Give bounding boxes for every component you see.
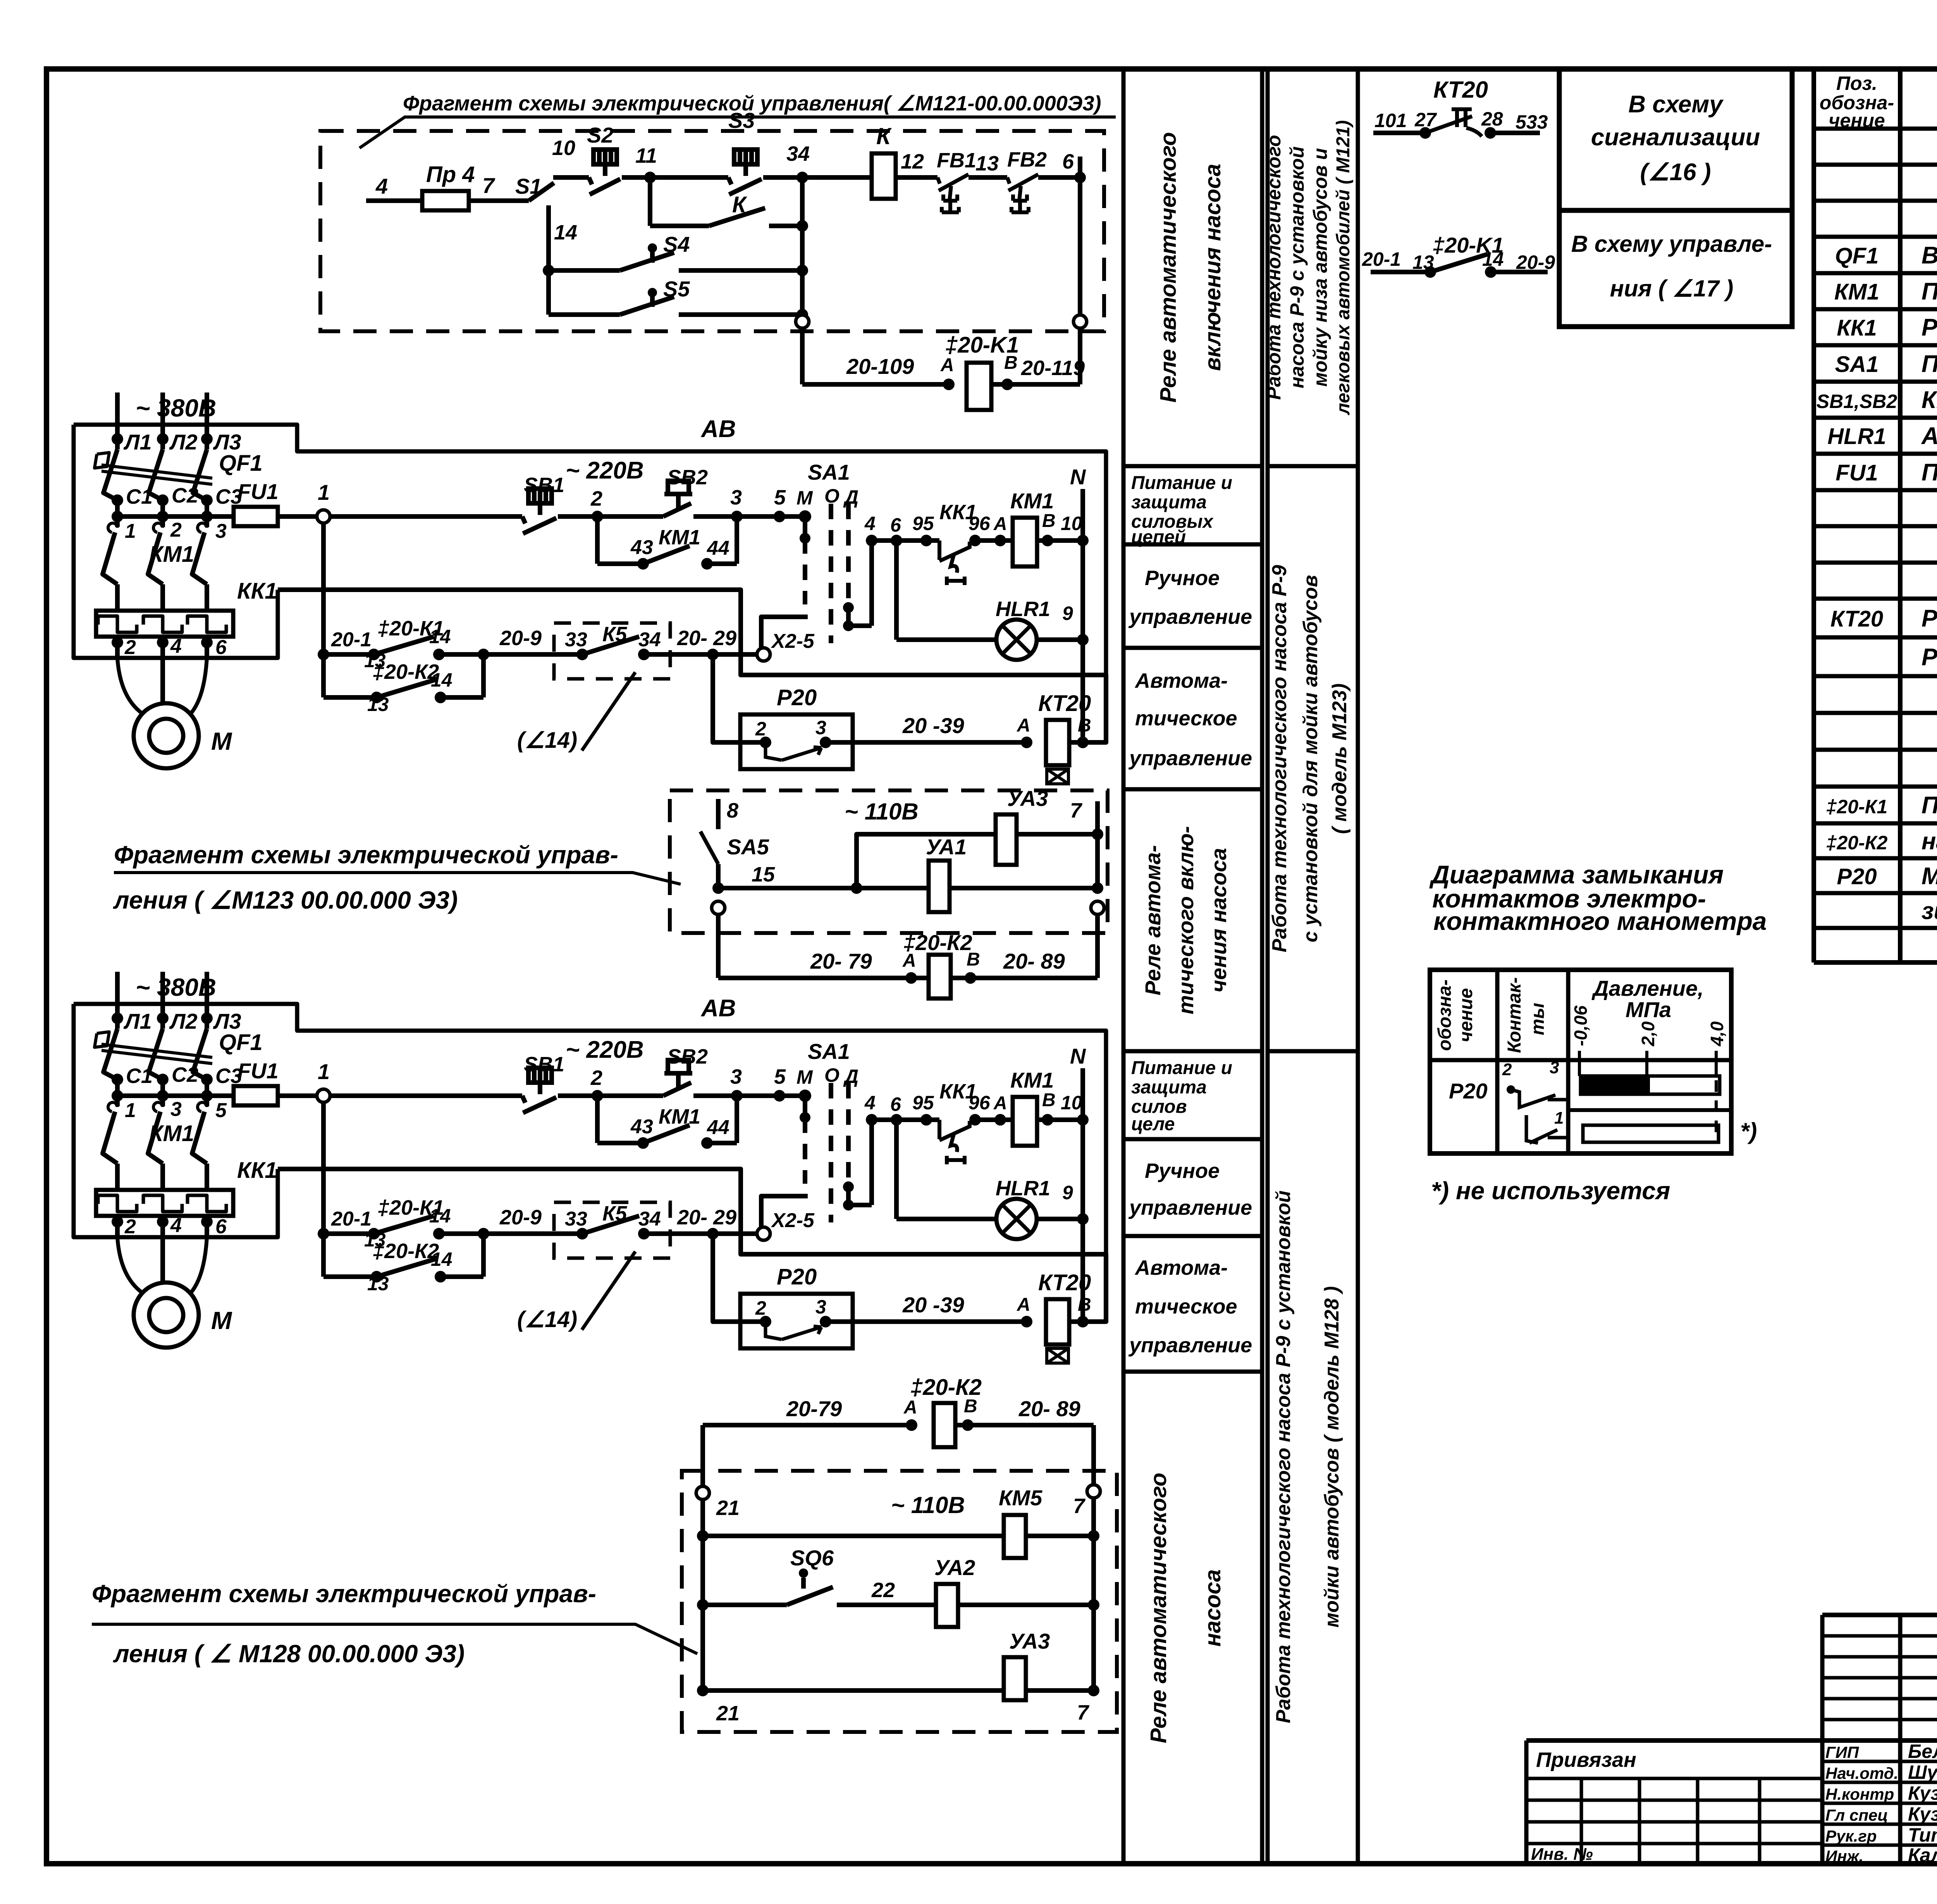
svg-text:1: 1 bbox=[318, 480, 330, 504]
branch contact 20-K2 bbox=[323, 695, 377, 700]
wire node 10 bbox=[553, 175, 589, 180]
S5 head bbox=[648, 288, 657, 297]
svg-text:Предохранитель: Предохранитель bbox=[1922, 459, 1937, 486]
wire 7 bbox=[469, 198, 529, 203]
motor terminals 2 4 6 bbox=[115, 637, 120, 658]
rail down to 20-119 corner bbox=[1078, 327, 1082, 384]
svg-text:14: 14 bbox=[431, 669, 452, 691]
svg-text:КК1: КК1 bbox=[237, 578, 277, 604]
svg-text:ления ( ∠М123 00.00.000 Э3): ления ( ∠М123 00.00.000 Э3) bbox=[113, 886, 458, 914]
svg-text:3: 3 bbox=[815, 717, 826, 739]
svg-text:96: 96 bbox=[968, 513, 991, 534]
KM1 self-hold contact 43-44 bbox=[595, 516, 600, 564]
svg-text:Питание и: Питание и bbox=[1131, 473, 1232, 493]
rail 20-79 / 20-K2 / 20-89 bbox=[716, 914, 721, 978]
svg-text:Гл спец: Гл спец bbox=[1825, 1806, 1888, 1824]
svg-text:Титов: Титов bbox=[1908, 1824, 1937, 1846]
svg-text:5: 5 bbox=[215, 1099, 227, 1122]
contact K auxiliary bbox=[648, 177, 652, 226]
diagram table bbox=[1430, 970, 1731, 1153]
svg-text:SB1: SB1 bbox=[524, 473, 564, 497]
svg-text:управление: управление bbox=[1128, 1196, 1252, 1219]
svg-text:( модель М123): ( модель М123) bbox=[1328, 683, 1351, 834]
svg-text:К: К bbox=[732, 192, 747, 217]
svg-text:УА1: УА1 bbox=[926, 835, 967, 859]
svg-text:~ 110В: ~ 110В bbox=[891, 1492, 965, 1518]
terminal circle left bbox=[796, 315, 809, 328]
left rail 21 bbox=[700, 1425, 705, 1487]
column divider bbox=[1123, 646, 1262, 650]
right rail of LM121 bbox=[1078, 157, 1082, 316]
svg-text:Автома-: Автома- bbox=[1134, 669, 1228, 692]
node 3 bbox=[731, 511, 743, 522]
coil KM1 bbox=[1013, 518, 1037, 566]
svg-text:контактного манометра: контактного манометра bbox=[1433, 907, 1767, 935]
svg-text:‡20-К2: ‡20-К2 bbox=[1826, 832, 1888, 854]
svg-text:S4: S4 bbox=[663, 232, 690, 257]
svg-text:зирующий ЭКМ-1У, 0...4 0 МП: зирующий ЭКМ-1У, 0...4 0 МПа bbox=[1922, 898, 1937, 924]
svg-text:20- 89: 20- 89 bbox=[1018, 1396, 1080, 1421]
svg-text:В схему управле-: В схему управле- bbox=[1571, 231, 1772, 257]
svg-text:Пр 4: Пр 4 bbox=[426, 162, 475, 187]
terminal circle bbox=[712, 901, 725, 914]
svg-text:20-9: 20-9 bbox=[499, 627, 542, 650]
phase wire bbox=[160, 393, 165, 449]
wire to node 11 bbox=[622, 175, 650, 180]
terminal 7 circle bbox=[1087, 1485, 1100, 1498]
svg-text:34: 34 bbox=[638, 628, 661, 651]
svg-text:SA5: SA5 bbox=[727, 835, 769, 859]
svg-text:95: 95 bbox=[912, 513, 934, 534]
svg-text:‡20-К1: ‡20-К1 bbox=[1826, 796, 1888, 818]
column divider bbox=[1123, 1137, 1262, 1141]
terminal 8 lead bbox=[716, 799, 721, 829]
svg-text:Давление,: Давление, bbox=[1591, 976, 1703, 1000]
svg-text:(∠16 ): (∠16 ) bbox=[1640, 159, 1711, 186]
svg-text:Р20: Р20 bbox=[1449, 1079, 1488, 1103]
svg-text:насоса: насоса bbox=[1200, 1569, 1225, 1647]
svg-text:14: 14 bbox=[1482, 248, 1504, 270]
KM1 pole wire bbox=[160, 500, 165, 527]
svg-text:включения насоса: включения насоса bbox=[1200, 164, 1225, 371]
column divider bbox=[1123, 464, 1262, 468]
svg-text:‡20-К2: ‡20-К2 bbox=[903, 930, 972, 955]
terminal 7 lead bbox=[1095, 801, 1100, 888]
svg-text:7: 7 bbox=[1077, 1701, 1090, 1724]
QF1 trip bar bbox=[101, 465, 212, 478]
electric motor M bbox=[117, 658, 143, 714]
S4 head bbox=[648, 243, 657, 253]
coil KM5 bbox=[1004, 1515, 1026, 1558]
svg-text:КМ1: КМ1 bbox=[1010, 489, 1054, 513]
svg-text:6: 6 bbox=[215, 636, 227, 659]
KM1 pole blade bbox=[192, 532, 207, 584]
button S3 bbox=[650, 175, 728, 180]
svg-text:Р20: Р20 bbox=[1837, 864, 1877, 889]
svg-text:Р20: Р20 bbox=[777, 685, 817, 710]
KM1 pole blade bbox=[103, 532, 117, 584]
X2-5 circle bbox=[757, 648, 770, 661]
svg-text:20 -39: 20 -39 bbox=[902, 713, 964, 738]
svg-text:1: 1 bbox=[125, 1099, 136, 1122]
svg-text:4: 4 bbox=[864, 513, 876, 534]
svg-text:КТ20: КТ20 bbox=[1830, 606, 1883, 632]
timer coil KT20 bbox=[1021, 737, 1032, 748]
terminals C1 C2 C3 bbox=[112, 494, 123, 506]
svg-text:В схему: В схему bbox=[1628, 91, 1724, 118]
svg-text:1: 1 bbox=[125, 520, 136, 542]
svg-text:В: В bbox=[1042, 511, 1056, 531]
svg-text:10: 10 bbox=[1061, 513, 1082, 534]
KM1 pole blade bbox=[148, 532, 163, 584]
svg-text:В: В bbox=[967, 949, 980, 970]
svg-text:3: 3 bbox=[215, 520, 227, 542]
node 34 dot bbox=[796, 172, 808, 183]
svg-text:КТ20: КТ20 bbox=[1433, 77, 1488, 103]
svg-text:КМ1: КМ1 bbox=[659, 526, 700, 549]
svg-text:SA1: SA1 bbox=[1835, 352, 1879, 377]
svg-text:20-1: 20-1 bbox=[331, 628, 372, 651]
L14 leader bbox=[582, 672, 635, 751]
rail 20-79 / 20-K2 / 20-89 top bbox=[703, 1423, 912, 1427]
junction 10 on N bbox=[1077, 535, 1089, 546]
node 1 circle bbox=[317, 510, 330, 523]
svg-text:Шунский: Шунский bbox=[1908, 1761, 1937, 1783]
svg-text:20- 79: 20- 79 bbox=[810, 949, 872, 973]
svg-text:*) не используется: *) не используется bbox=[1431, 1177, 1670, 1205]
svg-text:Работа технологического насо: Работа технологического насоса Р-9 bbox=[1268, 565, 1291, 952]
branch 14 vertical bbox=[546, 205, 551, 315]
svg-text:Д: Д bbox=[843, 486, 858, 508]
thermal contact FB2 bbox=[1007, 174, 1038, 212]
svg-text:9: 9 bbox=[1062, 603, 1073, 624]
svg-text:тическое: тическое bbox=[1135, 1295, 1237, 1318]
svg-text:сигнализации: сигнализации bbox=[1591, 124, 1760, 151]
right rail 7 bbox=[1091, 1425, 1096, 1486]
svg-text:21: 21 bbox=[716, 1496, 740, 1520]
svg-text:Кузнецов: Кузнецов bbox=[1908, 1782, 1937, 1804]
revision grid bbox=[1822, 1634, 1937, 1638]
svg-text:1: 1 bbox=[1554, 1109, 1564, 1128]
svg-text:Реле электротепловое: Реле электротепловое bbox=[1922, 314, 1937, 341]
svg-text:~ 110В: ~ 110В bbox=[845, 799, 919, 825]
svg-text:ния ( ∠17 ): ния ( ∠17 ) bbox=[1610, 275, 1734, 301]
line 20-1 with contact 20-K1 bbox=[318, 649, 329, 660]
svg-text:FU1: FU1 bbox=[1836, 460, 1878, 485]
svg-text:мойки автобусов ( модель: мойки автобусов ( модель М128 ) bbox=[1321, 1286, 1343, 1627]
svg-text:К: К bbox=[876, 123, 892, 149]
svg-text:Фрагмент схемы электрической: Фрагмент схемы электрической управ- bbox=[114, 841, 618, 869]
svg-text:защита: защита bbox=[1131, 492, 1207, 513]
svg-text:~ 220В: ~ 220В bbox=[566, 457, 644, 484]
svg-text:насоса Р-9 с установкой: насоса Р-9 с установкой bbox=[1286, 146, 1308, 389]
pressure gauge contact P20 bbox=[740, 714, 853, 769]
column divider bbox=[1123, 1370, 1262, 1374]
svg-text:SQ6: SQ6 bbox=[790, 1546, 834, 1570]
svg-text:ты: ты bbox=[1528, 1003, 1548, 1035]
node 5 bbox=[737, 514, 802, 519]
svg-text:управление: управление bbox=[1128, 1334, 1252, 1357]
svg-text:ления ( ∠ М128 00.00.000 Э3): ления ( ∠ М128 00.00.000 Э3) bbox=[113, 1640, 464, 1668]
svg-text:44: 44 bbox=[707, 537, 729, 559]
svg-text:ГИП: ГИП bbox=[1825, 1743, 1859, 1761]
svg-text:УА3: УА3 bbox=[1007, 786, 1048, 811]
fuse Пр4 bbox=[422, 191, 469, 210]
svg-text:О: О bbox=[824, 485, 839, 507]
svg-text:управление: управление bbox=[1128, 747, 1252, 770]
junction of K2 branch bbox=[478, 649, 489, 660]
svg-text:Поз.: Поз. bbox=[1836, 72, 1877, 94]
svg-text:20-9: 20-9 bbox=[1516, 251, 1555, 273]
svg-text:12: 12 bbox=[901, 150, 924, 173]
svg-text:АВ: АВ bbox=[700, 416, 736, 442]
wire 20-109 bbox=[802, 382, 949, 387]
column divider bbox=[1123, 1049, 1262, 1054]
svg-text:N: N bbox=[1070, 465, 1086, 489]
svg-text:КТ20: КТ20 bbox=[1038, 691, 1091, 716]
box: into control circuit (L17) bbox=[1559, 210, 1792, 327]
QF1 pole bbox=[149, 449, 163, 500]
stop button SB1 bbox=[522, 489, 556, 534]
svg-text:В: В bbox=[1078, 715, 1091, 736]
svg-text:S2: S2 bbox=[587, 123, 614, 147]
junction YA1/YA3 bbox=[851, 882, 862, 894]
KK1 heater bbox=[143, 616, 182, 632]
signature rows bbox=[1822, 1760, 1937, 1763]
svg-text:с установкой для мойки авто: с установкой для мойки автобусов bbox=[1299, 575, 1322, 942]
svg-text:2: 2 bbox=[124, 636, 136, 659]
motor control schematic 1 bbox=[74, 393, 1106, 784]
svg-text:6: 6 bbox=[890, 514, 901, 536]
svg-text:КК1: КК1 bbox=[1837, 315, 1877, 341]
wire K to FB1 bbox=[896, 175, 938, 180]
svg-text:Белоус: Белоус bbox=[1908, 1740, 1937, 1762]
svg-text:С1: С1 bbox=[126, 485, 153, 508]
SA1 D dashed bbox=[846, 504, 851, 599]
svg-text:тическое: тическое bbox=[1135, 707, 1237, 730]
wire node 34 bbox=[763, 175, 872, 180]
motor control schematic 2 bbox=[74, 972, 1106, 1363]
thermal contact FB1 bbox=[938, 174, 968, 212]
svg-text:SB2: SB2 bbox=[667, 466, 708, 489]
box: into signalling circuit (L16) bbox=[1559, 69, 1792, 210]
svg-text:7: 7 bbox=[482, 173, 495, 198]
row УА3 bbox=[697, 1685, 709, 1696]
SA1 position M bbox=[799, 510, 811, 523]
svg-text:4,0: 4,0 bbox=[1707, 1021, 1727, 1047]
svg-text:Л1: Л1 bbox=[123, 430, 152, 454]
title block top line bbox=[1822, 1613, 1937, 1617]
svg-text:УА2: УА2 bbox=[934, 1555, 975, 1580]
svg-text:20-1: 20-1 bbox=[1362, 248, 1401, 270]
svg-text:Инж.: Инж. bbox=[1825, 1847, 1863, 1865]
svg-text:МПа: МПа bbox=[1626, 997, 1671, 1022]
svg-text:УА3: УА3 bbox=[1009, 1629, 1050, 1653]
svg-text:защита: защита bbox=[1131, 1077, 1207, 1098]
svg-text:А: А bbox=[903, 1397, 917, 1418]
junction 6 bbox=[1074, 172, 1086, 183]
svg-text:Инв. №: Инв. № bbox=[1531, 1845, 1593, 1864]
SA1 M dashed bbox=[803, 538, 807, 604]
svg-text:8: 8 bbox=[727, 799, 738, 822]
terminal circle bbox=[1091, 901, 1104, 914]
fuse FU1 bbox=[234, 507, 278, 526]
svg-text:4: 4 bbox=[170, 635, 182, 658]
sub row divider bbox=[1569, 1108, 1731, 1112]
coil 20-K2 bottom bbox=[934, 1403, 955, 1447]
wire 20-119 bbox=[991, 382, 1080, 387]
wire FB1 to FB2 bbox=[968, 175, 1007, 180]
svg-text:Ручное: Ручное bbox=[1145, 1159, 1220, 1183]
node 34 vertical rail bbox=[800, 177, 805, 316]
svg-text:РКВ11-33-112 УХЛ4 , 0..30сек,: РКВ11-33-112 УХЛ4 , 0..30сек, ~220В bbox=[1922, 644, 1937, 671]
switch SA5 bbox=[700, 831, 718, 864]
svg-text:~ 380В: ~ 380В bbox=[136, 394, 216, 422]
X2-5 link to SA1 bbox=[761, 617, 808, 649]
svg-text:Переключатель: Переключатель bbox=[1922, 351, 1937, 377]
coil UA3 bottom bbox=[1004, 1657, 1026, 1700]
svg-text:34: 34 bbox=[786, 142, 810, 165]
section label column lines bbox=[1122, 69, 1126, 1864]
svg-text:20-109: 20-109 bbox=[846, 354, 914, 379]
svg-text:Ручное: Ручное bbox=[1145, 566, 1220, 590]
svg-text:обозна-: обозна- bbox=[1435, 980, 1455, 1051]
KK1 heater bbox=[188, 616, 226, 632]
wire 15 bbox=[712, 882, 724, 894]
main title block divider bbox=[1526, 1738, 1937, 1743]
column divider bbox=[1268, 1049, 1358, 1054]
column divider bbox=[1123, 542, 1262, 547]
svg-text:HLR1: HLR1 bbox=[1827, 424, 1886, 449]
svg-text:чение: чение bbox=[1829, 110, 1885, 131]
svg-text:Калмыков: Калмыков bbox=[1908, 1844, 1937, 1866]
svg-text:20-119: 20-119 bbox=[1021, 356, 1085, 380]
dashed enclosure LM128 bbox=[682, 1471, 1117, 1732]
svg-text:В: В bbox=[964, 1396, 977, 1417]
SQ6 head bbox=[799, 1568, 808, 1578]
junction to P20 bbox=[707, 649, 719, 660]
svg-text:Автома-: Автома- bbox=[1134, 1256, 1228, 1279]
caption LM128 underline leader bbox=[92, 1624, 697, 1654]
coil UA1 bbox=[929, 861, 950, 912]
KK1 heater bbox=[98, 616, 137, 632]
svg-text:SA1: SA1 bbox=[808, 460, 850, 484]
svg-text:20- 89: 20- 89 bbox=[1003, 949, 1065, 973]
svg-text:S1: S1 bbox=[515, 174, 542, 198]
svg-text:А: А bbox=[993, 514, 1007, 534]
svg-text:11: 11 bbox=[635, 144, 657, 167]
contact K5 33-34 bbox=[576, 649, 588, 660]
svg-text:тического вклю-: тического вклю- bbox=[1173, 826, 1198, 1014]
svg-text:целе: целе bbox=[1131, 1114, 1175, 1134]
column divider bbox=[1123, 787, 1262, 792]
svg-text:QF1: QF1 bbox=[1835, 243, 1879, 269]
svg-text:14: 14 bbox=[429, 626, 451, 647]
dashed enclosure LM121 bbox=[320, 131, 1104, 331]
power enclosure outline bbox=[74, 425, 1106, 675]
wire node 4 bbox=[366, 198, 422, 203]
coil UA3 bbox=[996, 814, 1017, 865]
caption underline and leader bbox=[360, 117, 1116, 148]
svg-text:4: 4 bbox=[375, 174, 388, 198]
svg-text:Манометр показывающий, сигна: Манометр показывающий, сигнали- bbox=[1922, 863, 1937, 890]
svg-text:Реле комбинированное времени: Реле комбинированное времени bbox=[1922, 605, 1937, 632]
svg-text:43: 43 bbox=[630, 536, 653, 559]
button S2 bbox=[589, 150, 620, 195]
svg-text:*): *) bbox=[1740, 1118, 1757, 1144]
SA1 O dashed bbox=[829, 504, 833, 643]
relay K5 dashed box bbox=[554, 623, 670, 679]
terminal A bbox=[943, 379, 955, 390]
gauge bar lower (unused) bbox=[1583, 1125, 1719, 1142]
svg-text:Арматура сигнальная: Арматура сигнальная bbox=[1921, 423, 1937, 449]
QF1 flag bbox=[95, 453, 109, 468]
svg-text:Кузнецов: Кузнецов bbox=[1908, 1803, 1937, 1825]
svg-text:КМ1: КМ1 bbox=[149, 542, 194, 567]
svg-text:3: 3 bbox=[170, 1098, 182, 1121]
SA1 D to node 4 bbox=[848, 623, 872, 628]
svg-text:533: 533 bbox=[1516, 111, 1548, 133]
svg-text:Кнопка: Кнопка bbox=[1922, 387, 1937, 413]
svg-text:HLR1: HLR1 bbox=[996, 597, 1050, 621]
svg-text:напряжение катушки 110В, 50Г: напряжение катушки 110В, 50Гц bbox=[1922, 828, 1937, 855]
dashed 4.0 line bbox=[1715, 1060, 1718, 1142]
svg-text:SB1,SB2: SB1,SB2 bbox=[1817, 391, 1897, 412]
node 1 bbox=[278, 514, 318, 519]
svg-text:2: 2 bbox=[755, 718, 766, 740]
svg-text:Выключатель автоматический: Выключатель автоматический bbox=[1922, 242, 1937, 269]
privyazan block bbox=[1524, 1740, 1529, 1864]
neutral wire N bbox=[1080, 489, 1085, 742]
svg-text:S5: S5 bbox=[663, 277, 690, 301]
drop to pressure switch P20 bbox=[713, 654, 766, 742]
svg-text:2: 2 bbox=[590, 487, 602, 510]
terminal circle right bbox=[1073, 315, 1087, 328]
svg-text:мойку низа автобусов и: мойку низа автобусов и bbox=[1309, 148, 1331, 387]
svg-text:21: 21 bbox=[716, 1702, 740, 1725]
coil UA2 bbox=[936, 1584, 958, 1627]
QF1 pole bbox=[103, 449, 117, 500]
switch S5 bbox=[549, 312, 620, 317]
branch to coil УА3 bbox=[857, 834, 996, 888]
svg-text:3: 3 bbox=[730, 486, 742, 509]
svg-text:Реле автома-: Реле автома- bbox=[1141, 845, 1165, 995]
svg-text:28: 28 bbox=[1481, 108, 1503, 130]
svg-text:Реле автоматического: Реле автоматического bbox=[1146, 1473, 1171, 1743]
svg-text:3: 3 bbox=[1550, 1058, 1559, 1077]
row 4-6-95-KK1-96-KM1-B-10 bbox=[872, 538, 939, 543]
svg-text:А: А bbox=[940, 355, 954, 375]
svg-text:Фрагмент схемы электрическо: Фрагмент схемы электрической управ- bbox=[92, 1580, 596, 1608]
svg-text:33: 33 bbox=[565, 628, 587, 651]
svg-text:Х2-5: Х2-5 bbox=[771, 630, 815, 652]
S4 branch wire bbox=[549, 268, 620, 273]
wire KK1 to KT20 bbox=[278, 590, 1106, 742]
svg-text:10: 10 bbox=[552, 136, 575, 160]
svg-text:М: М bbox=[211, 727, 232, 755]
svg-text:S3: S3 bbox=[728, 108, 755, 133]
svg-text:КМ5: КМ5 bbox=[999, 1486, 1042, 1510]
svg-text:С2: С2 bbox=[172, 484, 198, 507]
svg-text:20- 29: 20- 29 bbox=[677, 627, 736, 650]
svg-text:101: 101 bbox=[1374, 110, 1407, 131]
svg-text:FB2: FB2 bbox=[1007, 148, 1047, 171]
svg-text:QF1: QF1 bbox=[219, 451, 263, 476]
svg-text:чения насоса: чения насоса bbox=[1206, 848, 1231, 993]
coil 20-K2 mid bbox=[929, 955, 951, 998]
control wire 220V bbox=[329, 514, 522, 519]
svg-text:7: 7 bbox=[1073, 1494, 1086, 1518]
